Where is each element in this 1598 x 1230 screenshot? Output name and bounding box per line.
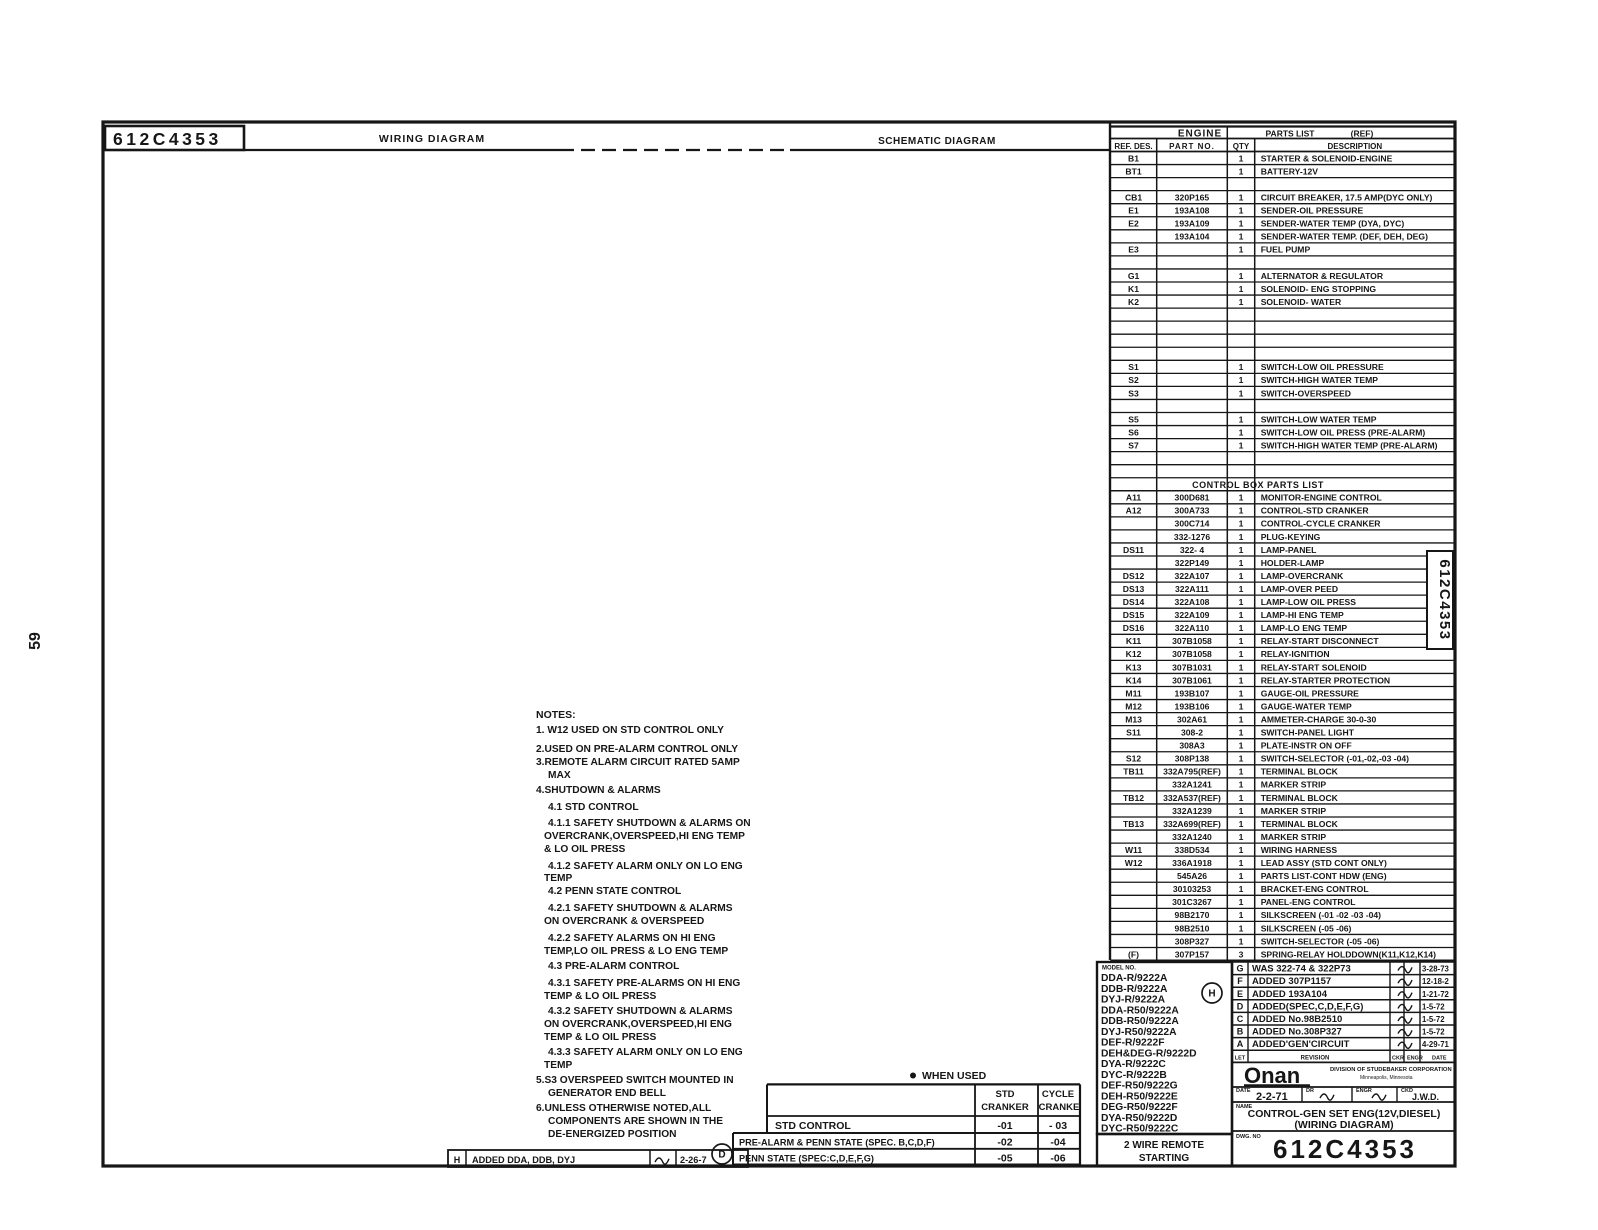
- svg-text:DYJ-R/9222A: DYJ-R/9222A: [1101, 995, 1166, 1006]
- svg-text:ALTERNATOR & REGULATOR: ALTERNATOR & REGULATOR: [1261, 271, 1384, 281]
- svg-text:GAUGE-OIL PRESSURE: GAUGE-OIL PRESSURE: [1261, 688, 1359, 698]
- svg-text:ADDED No.98B2510: ADDED No.98B2510: [1252, 1014, 1342, 1025]
- svg-text:DYA-R50/9222D: DYA-R50/9222D: [1101, 1113, 1177, 1124]
- svg-text:1: 1: [1239, 662, 1244, 672]
- svg-text:1: 1: [1239, 767, 1244, 777]
- svg-text:SWITCH-HIGH WATER TEMP (PRE-AL: SWITCH-HIGH WATER TEMP (PRE-ALARM): [1261, 440, 1438, 450]
- svg-text:HOLDER-LAMP: HOLDER-LAMP: [1261, 558, 1325, 568]
- svg-text:1: 1: [1239, 649, 1244, 659]
- svg-text:2-26-7: 2-26-7: [680, 1155, 707, 1165]
- svg-text:4.2 PENN STATE CONTROL: 4.2 PENN STATE CONTROL: [548, 886, 681, 897]
- svg-text:STARTING: STARTING: [1139, 1153, 1190, 1164]
- svg-text:MARKER STRIP: MARKER STRIP: [1261, 780, 1327, 790]
- svg-text:CKR: CKR: [1392, 1056, 1404, 1062]
- svg-text:PANEL-ENG CONTROL: PANEL-ENG CONTROL: [1261, 897, 1356, 907]
- svg-text:SWITCH-LOW WATER TEMP: SWITCH-LOW WATER TEMP: [1261, 414, 1377, 424]
- svg-text:MAX: MAX: [548, 770, 571, 781]
- svg-text:A11: A11: [1126, 493, 1142, 503]
- svg-text:CIRCUIT BREAKER, 17.5 AMP(DYC: CIRCUIT BREAKER, 17.5 AMP(DYC ONLY): [1261, 193, 1433, 203]
- svg-text:S5: S5: [1128, 414, 1139, 424]
- svg-text:M12: M12: [1125, 701, 1142, 711]
- svg-text:COMPONENTS ARE SHOWN IN THE: COMPONENTS ARE SHOWN IN THE: [548, 1116, 723, 1127]
- svg-text:1: 1: [1239, 858, 1244, 868]
- svg-text:1: 1: [1239, 493, 1244, 503]
- svg-text:DWG. NO: DWG. NO: [1236, 1134, 1261, 1140]
- svg-text:S12: S12: [1126, 754, 1142, 764]
- svg-text:S11: S11: [1126, 728, 1141, 738]
- svg-text:307B1031: 307B1031: [1172, 662, 1212, 672]
- svg-text:-02: -02: [997, 1137, 1012, 1149]
- svg-text:Onan: Onan: [1244, 1063, 1300, 1088]
- svg-text:K13: K13: [1126, 662, 1142, 672]
- svg-text:GAUGE-WATER TEMP: GAUGE-WATER TEMP: [1261, 701, 1352, 711]
- svg-text:MARKER STRIP: MARKER STRIP: [1261, 832, 1327, 842]
- svg-text:CONTROL BOX PARTS LIST: CONTROL BOX PARTS LIST: [1192, 480, 1324, 490]
- svg-text:1: 1: [1239, 532, 1244, 542]
- svg-text:H: H: [1208, 989, 1215, 1000]
- svg-text:S6: S6: [1128, 427, 1139, 437]
- svg-text:300D681: 300D681: [1175, 493, 1210, 503]
- svg-text:E2: E2: [1128, 219, 1139, 229]
- svg-text:332A537(REF): 332A537(REF): [1163, 793, 1221, 803]
- svg-text:PARTS LIST: PARTS LIST: [1266, 129, 1316, 139]
- svg-text:TEMP & LO OIL PRESS: TEMP & LO OIL PRESS: [544, 1032, 656, 1043]
- svg-text:C: C: [1237, 1014, 1244, 1024]
- svg-text:320P165: 320P165: [1175, 193, 1210, 203]
- svg-text:1: 1: [1239, 284, 1244, 294]
- svg-text:DS12: DS12: [1123, 571, 1145, 581]
- svg-text:332A1239: 332A1239: [1172, 806, 1212, 816]
- svg-text:DEG-R50/9222F: DEG-R50/9222F: [1101, 1102, 1178, 1113]
- svg-text:K14: K14: [1126, 675, 1142, 685]
- svg-text:NOTES:: NOTES:: [536, 709, 576, 721]
- svg-text:3: 3: [1239, 949, 1244, 959]
- svg-text:PRE-ALARM & PENN STATE (SPEC.: PRE-ALARM & PENN STATE (SPEC. B,C,D,F): [739, 1138, 935, 1148]
- svg-text:REF. DES.: REF. DES.: [1114, 142, 1152, 151]
- svg-text:ENGR: ENGR: [1356, 1088, 1372, 1094]
- svg-text:DDA-R50/9222A: DDA-R50/9222A: [1101, 1005, 1179, 1016]
- svg-text:307B1058: 307B1058: [1172, 636, 1212, 646]
- svg-text:S7: S7: [1128, 440, 1139, 450]
- svg-text:4.3 PRE-ALARM CONTROL: 4.3 PRE-ALARM CONTROL: [548, 961, 679, 972]
- svg-text:LAMP-PANEL: LAMP-PANEL: [1261, 545, 1317, 555]
- svg-text:AMMETER-CHARGE 30-0-30: AMMETER-CHARGE 30-0-30: [1261, 714, 1377, 724]
- svg-text:MODEL NO.: MODEL NO.: [1102, 966, 1136, 972]
- svg-text:1: 1: [1239, 714, 1244, 724]
- svg-text:TB13: TB13: [1123, 819, 1144, 829]
- svg-text:1: 1: [1239, 545, 1244, 555]
- svg-text:SWITCH-LOW OIL PRESSURE: SWITCH-LOW OIL PRESSURE: [1261, 362, 1384, 372]
- svg-text:1: 1: [1239, 897, 1244, 907]
- svg-text:322A111: 322A111: [1175, 584, 1209, 594]
- svg-text:1: 1: [1239, 623, 1244, 633]
- svg-text:H: H: [454, 1155, 461, 1165]
- svg-text:1: 1: [1239, 153, 1244, 163]
- svg-text:(REF): (REF): [1351, 129, 1374, 139]
- svg-text:612C4353: 612C4353: [113, 129, 222, 149]
- svg-text:DS14: DS14: [1123, 597, 1145, 607]
- svg-text:DATE: DATE: [1236, 1088, 1251, 1094]
- svg-text:300C714: 300C714: [1175, 519, 1210, 529]
- svg-text:LAMP-LOW OIL PRESS: LAMP-LOW OIL PRESS: [1261, 597, 1357, 607]
- svg-text:1: 1: [1239, 232, 1244, 242]
- svg-text:ADDED 307P1157: ADDED 307P1157: [1252, 976, 1331, 987]
- svg-text:545A26: 545A26: [1177, 871, 1207, 881]
- svg-text:193B106: 193B106: [1175, 701, 1210, 711]
- svg-text:LAMP-OVERCRANK: LAMP-OVERCRANK: [1261, 571, 1344, 581]
- svg-text:332-1276: 332-1276: [1174, 532, 1211, 542]
- svg-text:1: 1: [1239, 571, 1244, 581]
- svg-text:D: D: [718, 1150, 725, 1161]
- svg-text:SWITCH-OVERSPEED: SWITCH-OVERSPEED: [1261, 388, 1351, 398]
- svg-text:308A3: 308A3: [1179, 741, 1205, 751]
- svg-text:B: B: [1237, 1027, 1244, 1037]
- svg-text:332A795(REF): 332A795(REF): [1163, 767, 1221, 777]
- svg-text:1. W12 USED ON STD CONTROL ONL: 1. W12 USED ON STD CONTROL ONLY: [536, 725, 724, 736]
- svg-text:SWITCH-LOW OIL PRESS (PRE-ALAR: SWITCH-LOW OIL PRESS (PRE-ALARM): [1261, 427, 1426, 437]
- svg-text:1-5-72: 1-5-72: [1422, 1015, 1445, 1024]
- svg-text:DE-ENERGIZED POSITION: DE-ENERGIZED POSITION: [548, 1129, 677, 1140]
- svg-text:DS13: DS13: [1123, 584, 1145, 594]
- svg-text:1: 1: [1239, 558, 1244, 568]
- svg-text:LAMP-LO ENG TEMP: LAMP-LO ENG TEMP: [1261, 623, 1348, 633]
- svg-text:RELAY-START SOLENOID: RELAY-START SOLENOID: [1261, 662, 1367, 672]
- svg-text:GENERATOR END BELL: GENERATOR END BELL: [548, 1088, 666, 1099]
- svg-text:1: 1: [1239, 271, 1244, 281]
- svg-text:PLATE-INSTR ON OFF: PLATE-INSTR ON OFF: [1261, 741, 1352, 751]
- svg-text:SILKSCREEN (-05 -06): SILKSCREEN (-05 -06): [1261, 923, 1352, 933]
- svg-text:D: D: [1237, 1001, 1244, 1011]
- svg-text:322A109: 322A109: [1175, 610, 1210, 620]
- svg-text:2.USED ON PRE-ALARM CONTROL ON: 2.USED ON PRE-ALARM CONTROL ONLY: [536, 744, 738, 755]
- svg-text:1: 1: [1239, 193, 1244, 203]
- svg-text:3-28-73: 3-28-73: [1422, 965, 1450, 974]
- svg-text:1: 1: [1239, 754, 1244, 764]
- svg-text:ADDED No.308P327: ADDED No.308P327: [1252, 1027, 1342, 1038]
- svg-text:PART NO.: PART NO.: [1169, 142, 1215, 151]
- svg-text:STARTER & SOLENOID-ENGINE: STARTER & SOLENOID-ENGINE: [1261, 153, 1393, 163]
- svg-text:338D534: 338D534: [1175, 845, 1210, 855]
- svg-text:1: 1: [1239, 610, 1244, 620]
- svg-text:4.3.3 SAFETY ALARM ONLY ON LO: 4.3.3 SAFETY ALARM ONLY ON LO ENG: [548, 1047, 743, 1058]
- svg-text:A: A: [1237, 1039, 1244, 1049]
- svg-text:S2: S2: [1128, 375, 1139, 385]
- svg-text:F: F: [1237, 976, 1243, 986]
- svg-text:307P157: 307P157: [1175, 949, 1210, 959]
- svg-text:TB11: TB11: [1123, 767, 1144, 777]
- svg-text:TB12: TB12: [1123, 793, 1144, 803]
- svg-text:336A1918: 336A1918: [1172, 858, 1212, 868]
- svg-text:322P149: 322P149: [1175, 558, 1210, 568]
- svg-text:RELAY-START DISCONNECT: RELAY-START DISCONNECT: [1261, 636, 1380, 646]
- svg-text:1: 1: [1239, 701, 1244, 711]
- svg-text:SPRING-RELAY HOLDDOWN(K11,K12,: SPRING-RELAY HOLDDOWN(K11,K12,K14): [1261, 949, 1436, 959]
- svg-text:DYC-R/9222B: DYC-R/9222B: [1101, 1070, 1167, 1081]
- svg-text:4-29-71: 4-29-71: [1422, 1040, 1450, 1049]
- svg-text:-01: -01: [997, 1120, 1012, 1132]
- svg-text:4.2.1 SAFETY SHUTDOWN & ALARMS: 4.2.1 SAFETY SHUTDOWN & ALARMS: [548, 903, 733, 914]
- svg-text:1: 1: [1239, 832, 1244, 842]
- svg-text:CB1: CB1: [1125, 193, 1142, 203]
- svg-text:2 WIRE REMOTE: 2 WIRE REMOTE: [1124, 1140, 1204, 1151]
- svg-text:1: 1: [1239, 245, 1244, 255]
- svg-text:322- 4: 322- 4: [1180, 545, 1205, 555]
- svg-text:TERMINAL BLOCK: TERMINAL BLOCK: [1261, 819, 1339, 829]
- svg-text:1-5-72: 1-5-72: [1422, 1028, 1445, 1037]
- svg-text:1: 1: [1239, 741, 1244, 751]
- svg-text:MONITOR-ENGINE CONTROL: MONITOR-ENGINE CONTROL: [1261, 493, 1382, 503]
- svg-text:DEH-R50/9222E: DEH-R50/9222E: [1101, 1091, 1178, 1102]
- svg-text:OVERCRANK,OVERSPEED,HI ENG TEM: OVERCRANK,OVERSPEED,HI ENG TEMP: [544, 831, 745, 842]
- svg-text:M11: M11: [1125, 688, 1141, 698]
- svg-text:BT1: BT1: [1125, 166, 1141, 176]
- svg-text:K11: K11: [1126, 636, 1142, 646]
- svg-text:SENDER-WATER TEMP. (DEF, DEH,: SENDER-WATER TEMP. (DEF, DEH, DEG): [1261, 232, 1428, 242]
- svg-text:SENDER-WATER TEMP (DYA, DYC): SENDER-WATER TEMP (DYA, DYC): [1261, 219, 1405, 229]
- svg-text:DDB-R/9222A: DDB-R/9222A: [1101, 984, 1168, 995]
- svg-text:-04: -04: [1050, 1137, 1065, 1149]
- svg-text:REVISION: REVISION: [1301, 1056, 1330, 1062]
- svg-text:322A108: 322A108: [1175, 597, 1210, 607]
- svg-text:DATE: DATE: [1432, 1056, 1447, 1062]
- svg-text:SCHEMATIC DIAGRAM: SCHEMATIC DIAGRAM: [878, 136, 996, 147]
- svg-text:332A1240: 332A1240: [1172, 832, 1212, 842]
- svg-text:(WIRING DIAGRAM): (WIRING DIAGRAM): [1294, 1119, 1393, 1131]
- svg-text:1: 1: [1239, 362, 1244, 372]
- svg-text:BRACKET-ENG CONTROL: BRACKET-ENG CONTROL: [1261, 884, 1369, 894]
- svg-text:CRANKER: CRANKER: [981, 1102, 1029, 1113]
- svg-text:SILKSCREEN (-01 -02 -03 -04): SILKSCREEN (-01 -02 -03 -04): [1261, 910, 1381, 920]
- svg-text:B1: B1: [1128, 153, 1139, 163]
- svg-text:WIRING HARNESS: WIRING HARNESS: [1261, 845, 1338, 855]
- svg-text:PENN STATE (SPEC:C,D,E,F,G): PENN STATE (SPEC:C,D,E,F,G): [739, 1154, 874, 1164]
- svg-text:QTY: QTY: [1233, 142, 1250, 151]
- svg-text:332A699(REF): 332A699(REF): [1163, 819, 1221, 829]
- svg-text:DS16: DS16: [1123, 623, 1145, 633]
- svg-text:RELAY-IGNITION: RELAY-IGNITION: [1261, 649, 1330, 659]
- svg-text:1: 1: [1239, 388, 1244, 398]
- svg-text:DYJ-R50/9222A: DYJ-R50/9222A: [1101, 1027, 1177, 1038]
- svg-text:193A108: 193A108: [1175, 206, 1210, 216]
- svg-text:& LO OIL PRESS: & LO OIL PRESS: [544, 844, 626, 855]
- svg-text:MARKER STRIP: MARKER STRIP: [1261, 806, 1327, 816]
- svg-text:E: E: [1237, 989, 1243, 999]
- svg-text:1: 1: [1239, 936, 1244, 946]
- svg-text:LAMP-OVER PEED: LAMP-OVER PEED: [1261, 584, 1338, 594]
- svg-text:1: 1: [1239, 910, 1244, 920]
- svg-text:CONTROL-STD CRANKER: CONTROL-STD CRANKER: [1261, 506, 1370, 516]
- svg-text:CYCLE: CYCLE: [1042, 1089, 1074, 1100]
- svg-text:- 03: - 03: [1049, 1120, 1067, 1132]
- svg-text:DR: DR: [1306, 1088, 1314, 1094]
- svg-text:G: G: [1236, 964, 1243, 974]
- svg-text:SENDER-OIL PRESSURE: SENDER-OIL PRESSURE: [1261, 206, 1364, 216]
- svg-text:ON OVERCRANK,OVERSPEED,HI ENG: ON OVERCRANK,OVERSPEED,HI ENG: [544, 1019, 732, 1030]
- svg-text:ADDED 193A104: ADDED 193A104: [1252, 989, 1328, 1000]
- svg-text:DEF-R/9222F: DEF-R/9222F: [1101, 1038, 1165, 1049]
- svg-text:1: 1: [1239, 584, 1244, 594]
- svg-text:-05: -05: [997, 1153, 1012, 1165]
- svg-text:DS15: DS15: [1123, 610, 1145, 620]
- svg-text:1: 1: [1239, 923, 1244, 933]
- svg-text:1: 1: [1239, 297, 1244, 307]
- svg-text:TEMP & LO OIL PRESS: TEMP & LO OIL PRESS: [544, 991, 656, 1002]
- svg-text:1: 1: [1239, 166, 1244, 176]
- svg-text:SWITCH-PANEL LIGHT: SWITCH-PANEL LIGHT: [1261, 728, 1355, 738]
- svg-text:W12: W12: [1125, 858, 1143, 868]
- svg-text:302A61: 302A61: [1177, 714, 1207, 724]
- svg-text:TERMINAL BLOCK: TERMINAL BLOCK: [1261, 793, 1339, 803]
- svg-text:LET: LET: [1235, 1056, 1246, 1062]
- svg-text:12-18-2: 12-18-2: [1422, 977, 1450, 986]
- svg-text:1: 1: [1239, 440, 1244, 450]
- svg-text:(F): (F): [1128, 949, 1139, 959]
- svg-text:1-21-72: 1-21-72: [1422, 990, 1450, 999]
- svg-text:Minneapolis, Minnesota: Minneapolis, Minnesota: [1360, 1075, 1413, 1081]
- svg-text:1: 1: [1239, 519, 1244, 529]
- svg-text:193A109: 193A109: [1175, 219, 1210, 229]
- svg-text:1: 1: [1239, 219, 1244, 229]
- svg-text:30103253: 30103253: [1173, 884, 1211, 894]
- svg-text:1: 1: [1239, 675, 1244, 685]
- svg-text:1: 1: [1239, 780, 1244, 790]
- svg-text:DDB-R50/9222A: DDB-R50/9222A: [1101, 1016, 1179, 1027]
- svg-text:5.S3 OVERSPEED SWITCH MOUNTED: 5.S3 OVERSPEED SWITCH MOUNTED IN: [536, 1075, 734, 1086]
- svg-text:SWITCH-HIGH WATER TEMP: SWITCH-HIGH WATER TEMP: [1261, 375, 1379, 385]
- svg-text:FUEL PUMP: FUEL PUMP: [1261, 245, 1311, 255]
- svg-text:4.3.2 SAFETY SHUTDOWN & ALARMS: 4.3.2 SAFETY SHUTDOWN & ALARMS: [548, 1006, 733, 1017]
- svg-text:E1: E1: [1128, 206, 1139, 216]
- svg-text:LEAD ASSY (STD CONT ONLY): LEAD ASSY (STD CONT ONLY): [1261, 858, 1387, 868]
- svg-text:SOLENOID- ENG STOPPING: SOLENOID- ENG STOPPING: [1261, 284, 1377, 294]
- svg-text:1: 1: [1239, 884, 1244, 894]
- svg-text:193A104: 193A104: [1175, 232, 1210, 242]
- svg-text:RELAY-STARTER PROTECTION: RELAY-STARTER PROTECTION: [1261, 675, 1390, 685]
- svg-text:4.3.1 SAFETY PRE-ALARMS ON HI: 4.3.1 SAFETY PRE-ALARMS ON HI ENG: [548, 978, 740, 989]
- svg-text:1: 1: [1239, 871, 1244, 881]
- svg-text:WAS 322-74 & 322P73: WAS 322-74 & 322P73: [1252, 964, 1351, 975]
- svg-text:332A1241: 332A1241: [1172, 780, 1212, 790]
- svg-text:308-2: 308-2: [1181, 728, 1203, 738]
- svg-text:CONTROL-CYCLE CRANKER: CONTROL-CYCLE CRANKER: [1261, 519, 1382, 529]
- svg-text:ADDED'GEN'CIRCUIT: ADDED'GEN'CIRCUIT: [1252, 1039, 1350, 1050]
- svg-text:193B107: 193B107: [1175, 688, 1210, 698]
- svg-text:G1: G1: [1128, 271, 1140, 281]
- svg-text:STD CONTROL: STD CONTROL: [775, 1120, 851, 1132]
- svg-text:ADDED(SPEC,C,D,E,F,G): ADDED(SPEC,C,D,E,F,G): [1252, 1001, 1363, 1012]
- svg-text:WHEN USED: WHEN USED: [922, 1070, 987, 1082]
- svg-text:1: 1: [1239, 845, 1244, 855]
- svg-text:STD: STD: [996, 1089, 1015, 1100]
- svg-text:6.UNLESS OTHERWISE NOTED,ALL: 6.UNLESS OTHERWISE NOTED,ALL: [536, 1103, 711, 1114]
- svg-text:PARTS LIST-CONT HDW (ENG): PARTS LIST-CONT HDW (ENG): [1261, 871, 1387, 881]
- svg-text:4.2.2 SAFETY ALARMS ON HI ENG: 4.2.2 SAFETY ALARMS ON HI ENG: [548, 933, 716, 944]
- svg-text:K1: K1: [1128, 284, 1139, 294]
- svg-text:DDA-R/9222A: DDA-R/9222A: [1101, 973, 1168, 984]
- svg-text:DS11: DS11: [1123, 545, 1144, 555]
- svg-text:TERMINAL BLOCK: TERMINAL BLOCK: [1261, 767, 1339, 777]
- svg-text:-06: -06: [1050, 1153, 1065, 1165]
- svg-text:1: 1: [1239, 427, 1244, 437]
- svg-text:TEMP: TEMP: [544, 873, 573, 884]
- svg-text:TEMP: TEMP: [544, 1060, 573, 1071]
- svg-text:1: 1: [1239, 375, 1244, 385]
- svg-text:J.W.D.: J.W.D.: [1412, 1092, 1439, 1102]
- svg-text:A12: A12: [1126, 506, 1142, 516]
- svg-text:M13: M13: [1125, 714, 1142, 724]
- svg-text:3.REMOTE ALARM CIRCUIT RATED 5: 3.REMOTE ALARM CIRCUIT RATED 5AMP: [536, 757, 740, 768]
- svg-text:1: 1: [1239, 728, 1244, 738]
- svg-text:SWITCH-SELECTOR (-05 -06): SWITCH-SELECTOR (-05 -06): [1261, 936, 1380, 946]
- svg-text:308P138: 308P138: [1175, 754, 1210, 764]
- svg-text:1: 1: [1239, 506, 1244, 516]
- svg-text:1-5-72: 1-5-72: [1422, 1002, 1445, 1011]
- svg-text:307B1061: 307B1061: [1172, 675, 1212, 685]
- svg-text:300A733: 300A733: [1175, 506, 1210, 516]
- svg-text:322A110: 322A110: [1175, 623, 1210, 633]
- svg-text:612C4353: 612C4353: [1273, 1134, 1417, 1164]
- svg-text:1: 1: [1239, 793, 1244, 803]
- svg-text:TEMP,LO OIL PRESS & LO ENG TE: TEMP,LO OIL PRESS & LO ENG TEMP: [544, 946, 728, 957]
- svg-text:PLUG-KEYING: PLUG-KEYING: [1261, 532, 1321, 542]
- svg-text:ADDED DDA, DDB, DYJ: ADDED DDA, DDB, DYJ: [472, 1155, 575, 1165]
- svg-text:4.1 STD CONTROL: 4.1 STD CONTROL: [548, 802, 639, 813]
- svg-text:98B2510: 98B2510: [1175, 923, 1210, 933]
- svg-text:DIVISION OF STUDEBAKER CORP: DIVISION OF STUDEBAKER CORPORATION: [1330, 1067, 1452, 1073]
- svg-text:1: 1: [1239, 414, 1244, 424]
- svg-text:1: 1: [1239, 636, 1244, 646]
- svg-text:308P327: 308P327: [1175, 936, 1210, 946]
- svg-text:1: 1: [1239, 819, 1244, 829]
- svg-text:322A107: 322A107: [1175, 571, 1210, 581]
- svg-text:SOLENOID- WATER: SOLENOID- WATER: [1261, 297, 1342, 307]
- svg-text:E3: E3: [1128, 245, 1139, 255]
- svg-text:98B2170: 98B2170: [1175, 910, 1210, 920]
- svg-text:W11: W11: [1125, 845, 1142, 855]
- svg-text:4.SHUTDOWN & ALARMS: 4.SHUTDOWN & ALARMS: [536, 785, 661, 796]
- svg-text:301C3267: 301C3267: [1172, 897, 1212, 907]
- svg-text:1: 1: [1239, 597, 1244, 607]
- svg-text:ON OVERCRANK & OVERSPEED: ON OVERCRANK & OVERSPEED: [544, 916, 704, 927]
- svg-text:59: 59: [27, 632, 44, 650]
- svg-text:WIRING DIAGRAM: WIRING DIAGRAM: [379, 133, 485, 145]
- svg-text:CRANKE: CRANKE: [1039, 1102, 1080, 1113]
- svg-text:1: 1: [1239, 206, 1244, 216]
- svg-text:1: 1: [1239, 806, 1244, 816]
- svg-text:S3: S3: [1128, 388, 1139, 398]
- svg-text:DYA-R/9222C: DYA-R/9222C: [1101, 1059, 1166, 1070]
- svg-text:DEF-R50/9222G: DEF-R50/9222G: [1101, 1081, 1178, 1092]
- svg-text:K2: K2: [1128, 297, 1139, 307]
- svg-text:DEH&DEG-R/9222D: DEH&DEG-R/9222D: [1101, 1048, 1197, 1059]
- svg-text:1: 1: [1239, 688, 1244, 698]
- svg-text:LAMP-HI ENG TEMP: LAMP-HI ENG TEMP: [1261, 610, 1344, 620]
- svg-text:K12: K12: [1126, 649, 1142, 659]
- svg-text:4.1.1 SAFETY SHUTDOWN & ALARMS: 4.1.1 SAFETY SHUTDOWN & ALARMS ON: [548, 818, 751, 829]
- svg-text:DESCRIPTION: DESCRIPTION: [1328, 142, 1383, 151]
- svg-text:BATTERY-12V: BATTERY-12V: [1261, 166, 1319, 176]
- svg-text:307B1058: 307B1058: [1172, 649, 1212, 659]
- svg-text:612C4353: 612C4353: [1436, 559, 1453, 640]
- svg-text:SWITCH-SELECTOR (-01,-02,-03 -: SWITCH-SELECTOR (-01,-02,-03 -04): [1261, 754, 1409, 764]
- svg-text:4.1.2 SAFETY ALARM ONLY ON LO: 4.1.2 SAFETY ALARM ONLY ON LO ENG: [548, 861, 743, 872]
- svg-text:S1: S1: [1128, 362, 1139, 372]
